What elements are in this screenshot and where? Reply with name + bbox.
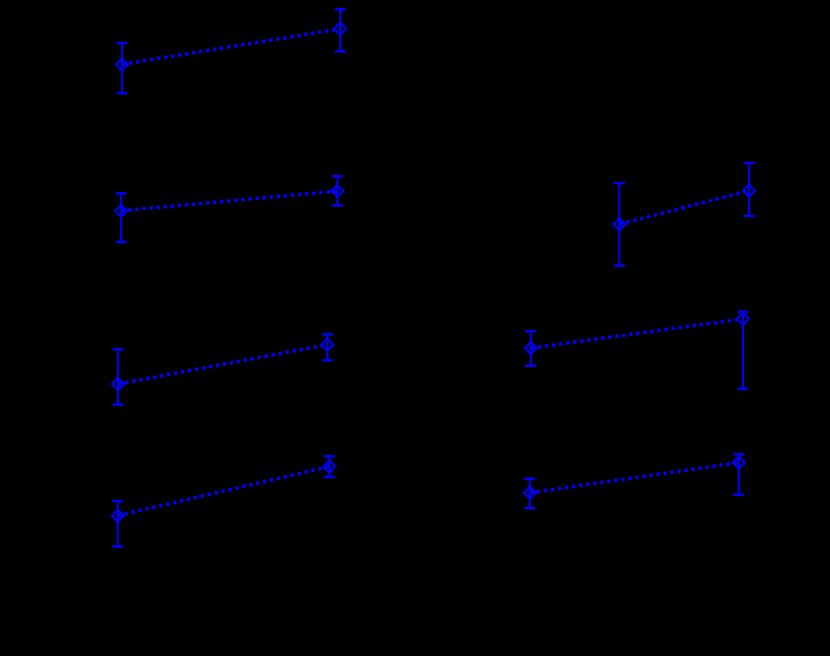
series 1 (top-left) point 2 diamond marker [334,23,346,35]
series 7 (bottom-right) point 1 diamond marker [524,487,536,499]
series 7 (bottom-right) point 1 top cap [524,477,535,479]
series 6 (lower-right) point 1 top cap [525,330,536,332]
series 6 (lower-right) point 1 error bar [530,331,532,366]
series 1 (top-left) point 1 bottom cap [116,92,127,94]
series 1 (top-left) point 1 top cap [116,42,127,44]
series 5 (mid-right) dotted trend line [619,191,749,225]
series 4 (bottom-left) dotted trend line [118,467,330,516]
series 3 (lower-left) point 2 top cap [322,333,333,335]
series 6 (lower-right) dotted trend line [531,319,743,348]
series 6 (lower-right) point 2 diamond marker [737,313,749,325]
series 1 (top-left) point 1 diamond marker [116,58,128,70]
series 7 (bottom-right) point 2 error bar [738,454,740,494]
series 1 (top-left) point 2 top cap [335,8,346,10]
series 3 (lower-left) point 2 diamond marker [321,339,333,351]
series 4 (bottom-left) point 2 diamond marker [323,461,335,473]
series 2 (mid-left) point 2 diamond marker [331,185,343,197]
series 2 (mid-left) dotted trend line [121,191,337,211]
series 5 (mid-right) point 1 bottom cap [614,264,625,266]
series 5 (mid-right) point 2 error bar [748,163,750,216]
series 2 (mid-left) point 1 top cap [116,192,127,194]
series 2 (mid-left) point 2 bottom cap [332,204,343,206]
series 5 (mid-right) point 1 diamond marker [613,218,625,230]
series 6 (lower-right) point 1 diamond marker [525,342,537,354]
series 5 (mid-right) point 1 top cap [614,182,625,184]
series 5 (mid-right) point 2 diamond marker [743,185,755,197]
series 7 (bottom-right) point 2 top cap [733,453,744,455]
series 7 (bottom-right) point 2 bottom cap [733,494,744,496]
series 2 (mid-left) point 1 bottom cap [116,241,127,243]
series 2 (mid-left) point 1 diamond marker [115,205,127,217]
series 6 (lower-right) point 2 top cap [737,311,748,313]
series 7 (bottom-right) point 1 error bar [529,479,531,509]
series 3 (lower-left) point 1 error bar [117,349,119,404]
series 4 (bottom-left) point 1 bottom cap [112,545,123,547]
series 7 (bottom-right) point 1 bottom cap [524,507,535,509]
series 3 (lower-left) point 1 top cap [113,348,124,350]
series 4 (bottom-left) point 2 error bar [328,456,330,477]
series 4 (bottom-left) point 1 error bar [117,501,119,547]
series 3 (lower-left) point 2 error bar [326,334,328,360]
series 6 (lower-right) point 1 bottom cap [525,365,536,367]
series 7 (bottom-right) point 2 diamond marker [733,457,745,469]
series 5 (mid-right) point 1 error bar [618,183,620,266]
series 4 (bottom-left) point 2 top cap [324,455,335,457]
series 7 (bottom-right) dotted trend line [530,463,739,493]
series 3 (lower-left) point 2 bottom cap [322,359,333,361]
series 1 (top-left) dotted trend line [122,29,340,65]
series 2 (mid-left) point 2 top cap [332,175,343,177]
series 4 (bottom-left) point 2 bottom cap [324,476,335,478]
series 5 (mid-right) point 2 top cap [744,162,755,164]
series 3 (lower-left) point 1 bottom cap [113,403,124,405]
series 5 (mid-right) point 2 bottom cap [744,215,755,217]
series 3 (lower-left) point 1 diamond marker [112,378,124,390]
series 1 (top-left) point 2 error bar [339,9,341,51]
series 4 (bottom-left) point 1 top cap [112,500,123,502]
series 2 (mid-left) point 2 error bar [336,176,338,205]
series 1 (top-left) point 1 error bar [121,43,123,93]
series 2 (mid-left) point 1 error bar [120,193,122,242]
series 6 (lower-right) point 2 bottom cap [737,388,748,390]
series 6 (lower-right) point 2 error bar [742,312,744,389]
series 3 (lower-left) dotted trend line [118,345,327,384]
series 4 (bottom-left) point 1 diamond marker [112,510,124,522]
series 1 (top-left) point 2 bottom cap [335,50,346,52]
